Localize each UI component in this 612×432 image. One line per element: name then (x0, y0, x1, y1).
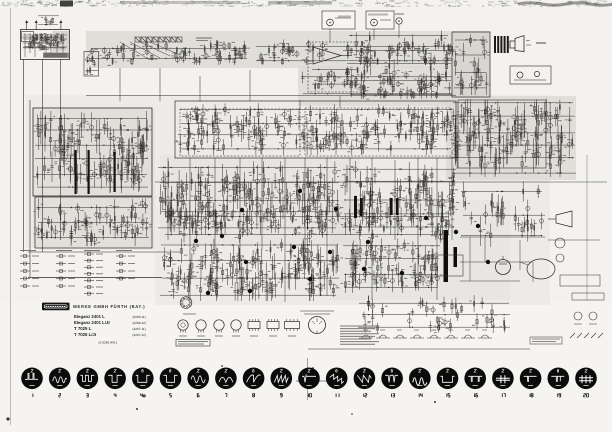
svg-text:(2-3266 H91): (2-3266 H91) (99, 341, 117, 345)
right small box 1 (560, 275, 600, 286)
convergence circuitry (358, 295, 510, 333)
long bus y182 (155, 181, 548, 183)
tuner box K1 (20, 30, 69, 60)
center mid fill (165, 206, 449, 243)
center low circuitry C (343, 238, 440, 293)
AFC circuitry (86, 55, 98, 74)
center area circuitry B (342, 161, 456, 235)
tuner extra ink (23, 33, 67, 57)
CRT base diagram (309, 317, 326, 334)
band fanout wires (120, 42, 180, 60)
video IF circuitry (178, 103, 452, 155)
lower left block frame (35, 197, 152, 248)
sound output wash (452, 31, 490, 98)
right top circle pair (555, 238, 565, 248)
IF transformer bars C (114, 152, 116, 192)
volume control pot (371, 19, 378, 26)
tuner label strip (43, 53, 69, 59)
central band tone (26, 95, 550, 248)
deflection yoke (556, 211, 572, 227)
IF transformer bars A (75, 150, 77, 194)
chroma right block (458, 100, 546, 168)
center area circuitry A (158, 161, 339, 235)
audio section wash (298, 66, 456, 106)
note text center (296, 380, 330, 382)
video IF strip frame (175, 101, 456, 158)
op-amp U1 (313, 47, 341, 64)
speaker label (536, 42, 546, 44)
tone control pot (327, 19, 334, 26)
power area wires (460, 237, 545, 282)
photo blotch 3 (40, 110, 155, 250)
damper tube V1 (496, 260, 511, 275)
sound output box circuitry (452, 32, 490, 97)
audio amp circuitry (312, 67, 361, 89)
band lower circuitry (301, 68, 452, 99)
channel selector buttons (135, 37, 182, 42)
output transformer T1 (494, 36, 509, 53)
long bus y95 (86, 95, 456, 97)
svg-text:T 7025 L/Jt: T 7025 L/Jt (74, 332, 97, 337)
tube base diagram (180, 297, 192, 309)
left margin wire (29, 100, 31, 277)
bus line 2 (28, 251, 180, 253)
left IF wash (33, 108, 152, 248)
lower left circuitry (36, 198, 149, 246)
paper tone lower area (0, 302, 612, 432)
symbol legend (20, 251, 135, 296)
volume control box (366, 11, 394, 29)
power small box (425, 255, 463, 276)
Grundig logo (42, 303, 70, 311)
svg-text:(3266-22): (3266-22) (133, 321, 146, 325)
right note box (530, 337, 562, 344)
tuner circuitry (22, 33, 65, 50)
top fold-over smudge strip (1, 1, 612, 7)
band circuitry right (256, 39, 455, 66)
right small box 2 (572, 293, 604, 300)
IF right wash (446, 96, 576, 180)
line output transformer (354, 196, 357, 218)
fold crease center (307, 358, 309, 400)
model list (74, 314, 146, 345)
right switch symbols (570, 333, 603, 338)
photo blotch 2 (330, 200, 510, 300)
tuner band wash (86, 31, 456, 68)
bottom long wire (308, 348, 530, 350)
CRT neck (527, 259, 555, 279)
center low circuitry B (160, 238, 340, 301)
tuner wire down C (59, 59, 61, 240)
tone control box (322, 11, 355, 29)
balance pot (396, 18, 402, 24)
headphone jack components (517, 72, 523, 78)
horizontal bus line (28, 277, 162, 279)
headphone box (510, 66, 551, 84)
faint top-left bits (38, 16, 59, 25)
service note box (176, 340, 210, 347)
fine print paragraph (340, 326, 379, 344)
chroma right circuitry (452, 99, 576, 177)
semiconductor pinouts (178, 319, 300, 336)
central band tone lower (155, 248, 550, 305)
speaker LS1 (510, 36, 524, 52)
flyback bars (390, 198, 393, 215)
waveform reference markers (194, 189, 490, 295)
right mid circuitry (461, 181, 545, 247)
audio box drop wires (330, 24, 399, 42)
video IF inner dashed 2 (305, 108, 452, 156)
AFC box (84, 51, 99, 76)
antenna arrows (25, 20, 62, 30)
tuner inner shade (53, 31, 70, 52)
IF block frame (33, 108, 152, 196)
convergence diode row (359, 330, 492, 338)
fold crease left (10, 8, 12, 425)
svg-text:T 7025 L: T 7025 L (74, 326, 92, 331)
power transformer TR1b (454, 247, 458, 267)
svg-text:Eleganz 2401 L/Jt: Eleganz 2401 L/Jt (74, 320, 110, 325)
tuner sub-box input (22, 32, 34, 42)
tuner wire down B (42, 59, 44, 252)
audio amp box (308, 42, 364, 92)
audio mid components (347, 30, 452, 99)
svg-text:(3267-22): (3267-22) (133, 333, 146, 337)
svg-text:Eleganz 2401 L: Eleganz 2401 L (74, 314, 105, 319)
svg-text:(3266-11): (3266-11) (133, 315, 146, 319)
power transformer TR1 (444, 230, 449, 282)
oscilloscope waveform key row (21, 368, 597, 398)
svg-text:(3267-11): (3267-11) (133, 327, 146, 331)
tuner wire down A (23, 59, 25, 252)
band legend text (196, 37, 212, 39)
svg-text:WERKE GMBH FÜRTH (BAY.): WERKE GMBH FÜRTH (BAY.) (73, 304, 145, 309)
IF transformer bars B (88, 150, 90, 194)
IF block circuitry (35, 111, 149, 193)
video IF strip inner dashed (180, 109, 300, 156)
photo specks (6, 365, 436, 421)
long vertical wires (120, 68, 452, 302)
band circuitry sparse (89, 40, 247, 65)
photo blotch 1 (160, 155, 360, 245)
right margin wires (548, 155, 607, 300)
right circles 17T (574, 312, 582, 320)
